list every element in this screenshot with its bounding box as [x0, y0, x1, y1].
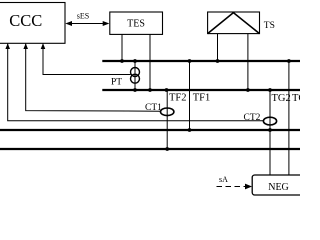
svg-text:sES: sES [77, 11, 89, 20]
svg-text:TG2: TG2 [272, 93, 291, 104]
busbar 4 [0, 148, 300, 150]
node: CT1 wire on busbar 4 [165, 147, 169, 151]
controller box CCC [0, 3, 65, 44]
potential transformer PT [111, 61, 140, 90]
dashed signal arrow sA into NEG [217, 175, 253, 189]
node: PT on busbar 2 [133, 88, 137, 92]
busbar 2 [102, 89, 300, 91]
busbar 3 [0, 129, 300, 131]
svg-text:NEG: NEG [268, 182, 289, 193]
node: TES left on busbar 1 [120, 59, 124, 63]
box TES [110, 12, 163, 34]
svg-text:CT1: CT1 [145, 103, 162, 113]
svg-text:CT2: CT2 [244, 113, 261, 123]
svg-text:TF2: TF2 [169, 92, 187, 103]
svg-text:sA: sA [219, 175, 228, 184]
node: CT2 wire on busbar 2 [268, 88, 272, 92]
node: TS right on busbar 2 [246, 88, 250, 92]
node: PT on busbar 1 [133, 59, 137, 63]
signal wire CCC to PT [41, 43, 131, 74]
node: TF1 wire on busbar 3 [188, 128, 192, 132]
feeder wire TF1 (busbar1 to busbar3) [189, 61, 191, 130]
feeder wire TG1 (busbar1 to NEG) [288, 61, 290, 175]
wire TES left to busbar 1 [121, 34, 123, 61]
node: TG1 wire on busbar 1 [287, 59, 291, 63]
signal wire CCC to CT1 [23, 43, 160, 111]
svg-text:TF1: TF1 [193, 92, 211, 103]
node: CT2 wire on busbar 3 [268, 128, 272, 132]
bidirectional signal arrow sES [65, 11, 109, 26]
node: TES right on busbar 2 [148, 88, 152, 92]
node: TF1 wire on busbar 1 [188, 59, 192, 63]
feeder wire TG2 (busbar2 to NEG) [269, 90, 271, 175]
current transformer CT1 [145, 103, 174, 116]
wire TES right to busbar 2 [149, 34, 151, 90]
node: CT1 wire on busbar 2 [165, 88, 169, 92]
signal wire CCC to CT2 [5, 43, 263, 121]
svg-text:TG1: TG1 [292, 93, 300, 104]
svg-text:PT: PT [111, 78, 122, 88]
feeder wire TF2 (busbar2 to busbar4) [166, 90, 168, 149]
svg-text:TES: TES [127, 18, 145, 29]
wire TS left to busbar 1 [217, 34, 219, 61]
wire TS right to busbar 2 [247, 34, 249, 90]
current transformer CT2 [244, 113, 277, 125]
node: TS left on busbar 1 [216, 59, 220, 63]
transformer symbol TS [208, 12, 275, 34]
svg-text:TS: TS [264, 21, 275, 31]
box NEG [252, 175, 307, 195]
svg-text:CCC: CCC [9, 11, 42, 30]
busbar 1 [102, 60, 300, 62]
